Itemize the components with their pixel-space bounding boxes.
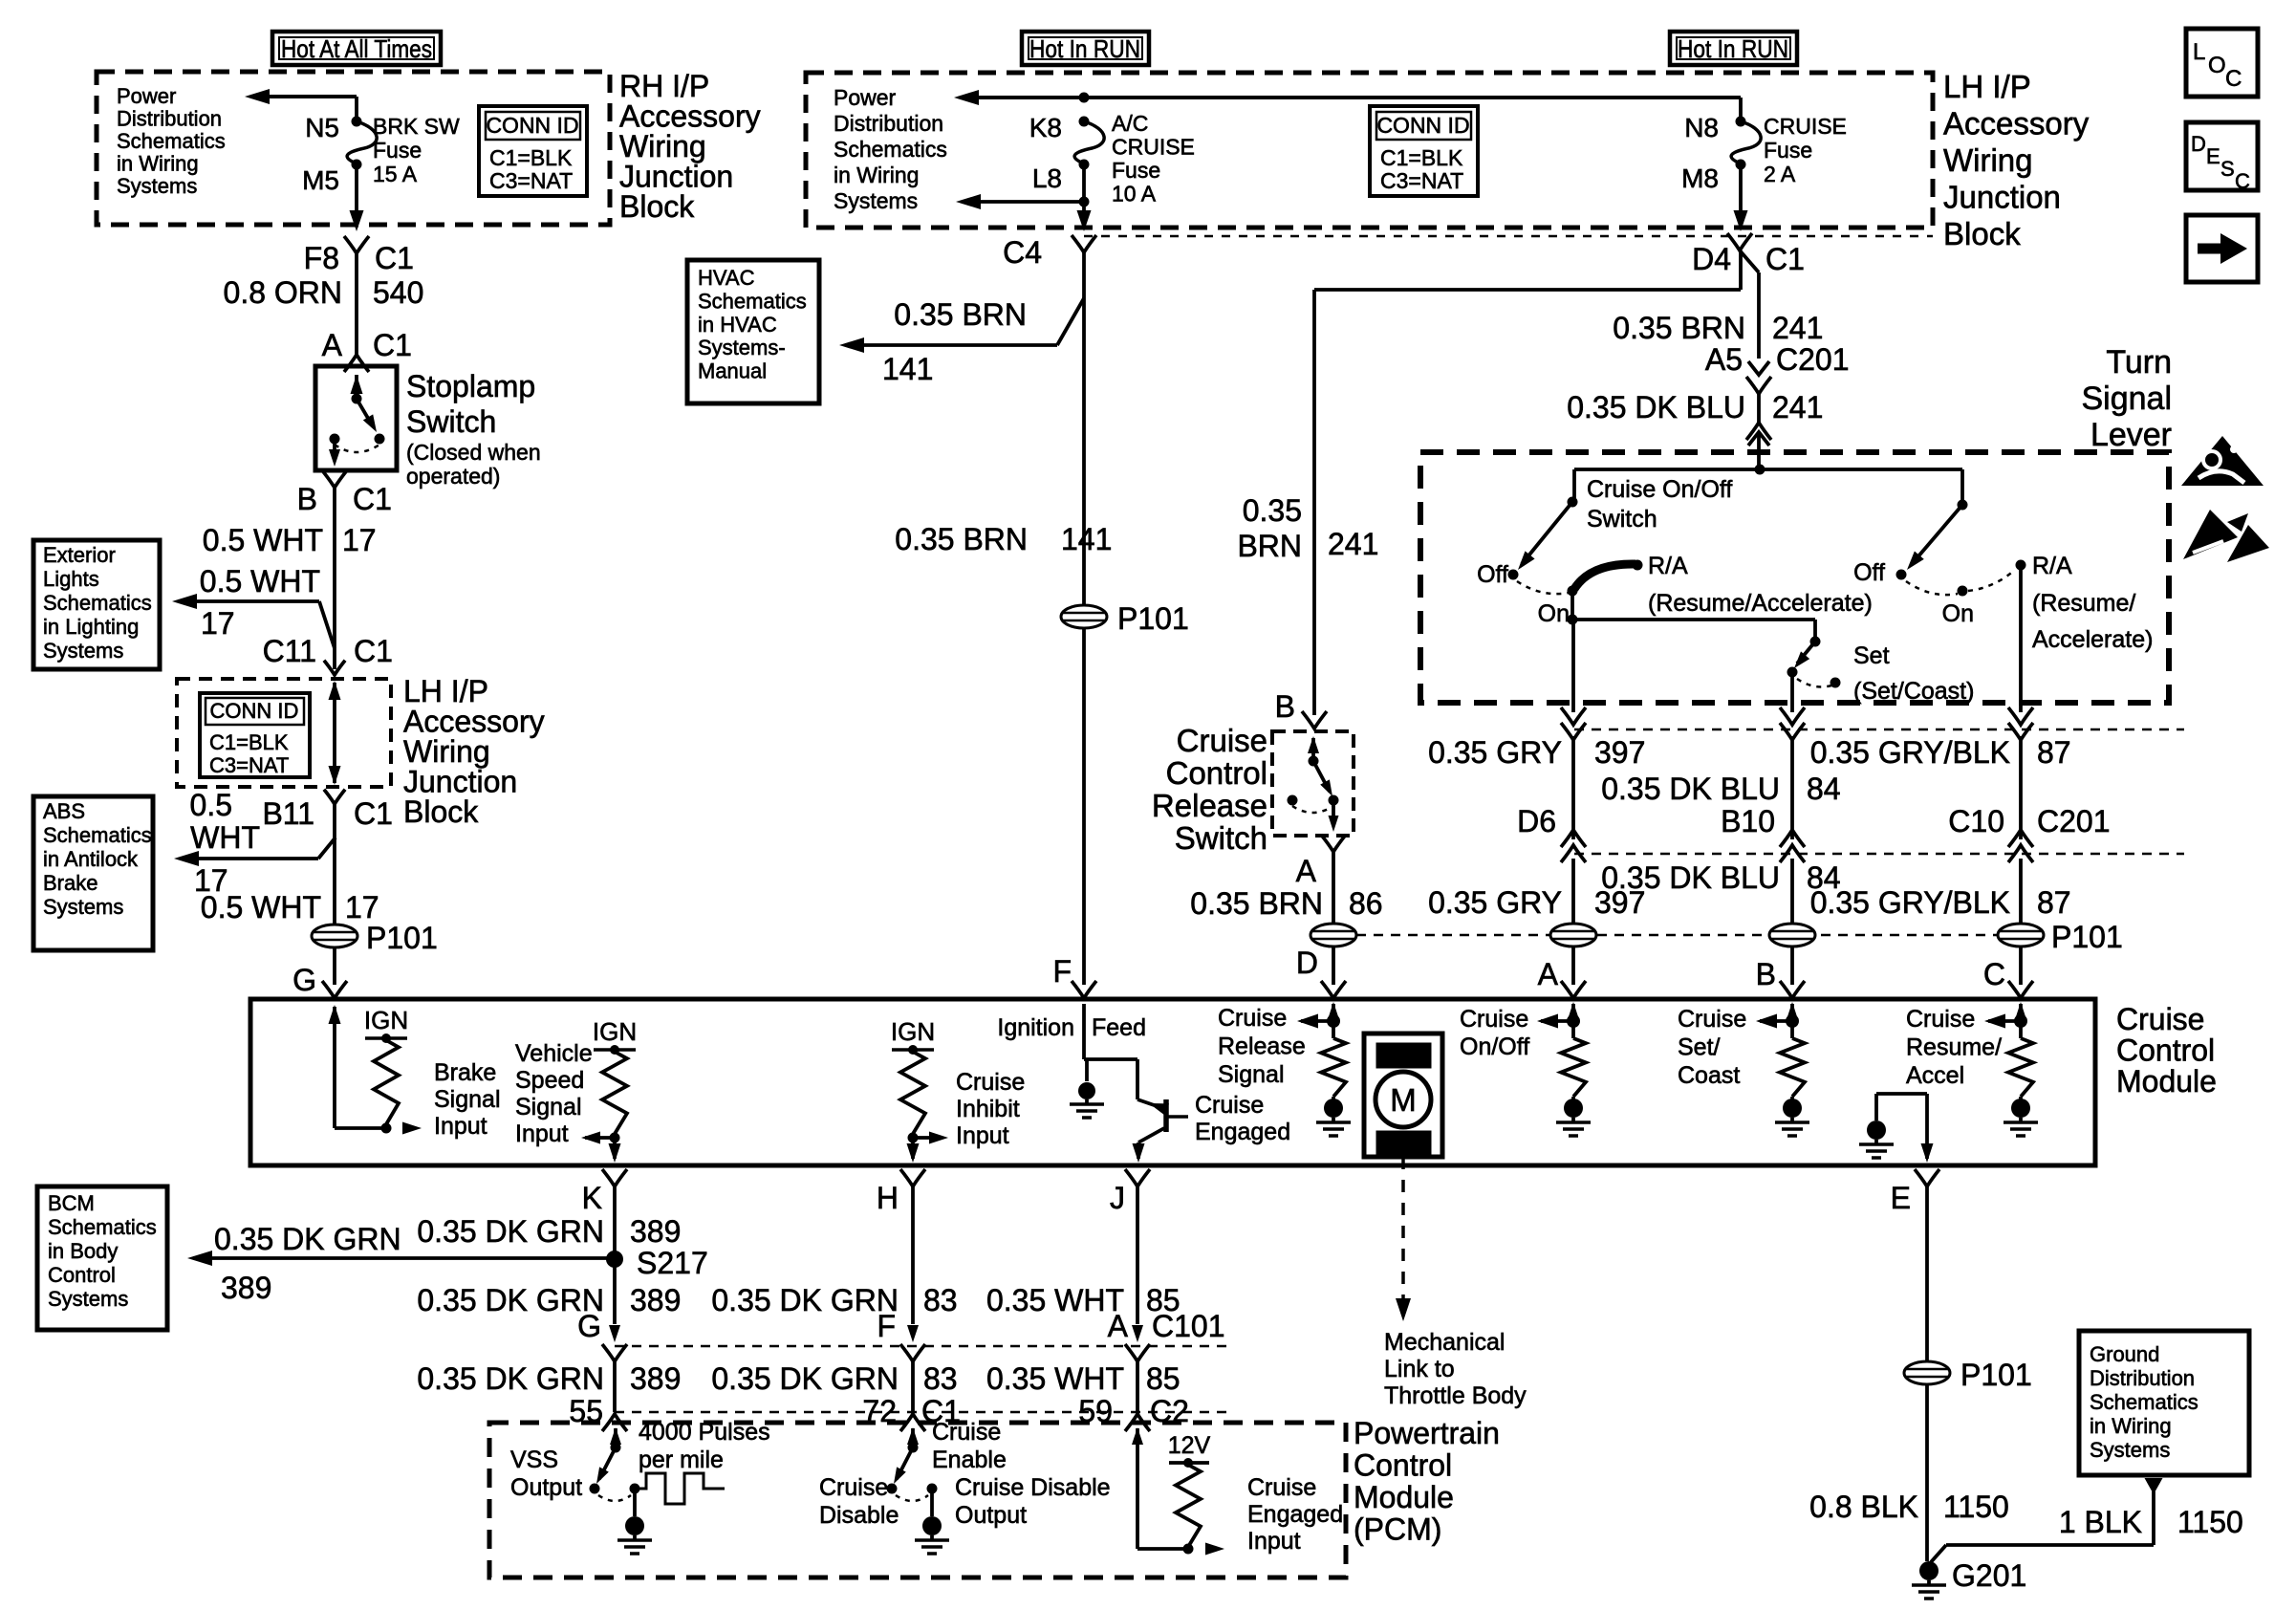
svg-text:0.35 WHT: 0.35 WHT: [986, 1361, 1124, 1396]
connector B C1: [297, 470, 392, 516]
svg-text:P101: P101: [1117, 601, 1189, 636]
svg-text:0.35 DK BLU: 0.35 DK BLU: [1601, 772, 1780, 806]
svg-text:BCM: BCM: [48, 1191, 95, 1215]
label Cruise Resume/ Accel: [1906, 1006, 2002, 1089]
svg-text:E: E: [1891, 1181, 1911, 1215]
svg-text:Schematics: Schematics: [834, 137, 947, 162]
svg-text:Cruise: Cruise: [1460, 1006, 1528, 1033]
svg-text:241: 241: [1772, 390, 1823, 424]
svg-text:Fuse: Fuse: [1764, 138, 1812, 163]
connector P101 (B wire): [1769, 924, 1815, 946]
svg-text:389: 389: [630, 1283, 681, 1317]
svg-text:A: A: [1538, 957, 1559, 991]
label Cruise Inhibit Input: [956, 1069, 1025, 1149]
svg-text:87: 87: [2037, 885, 2071, 920]
svg-text:Coast: Coast: [1678, 1062, 1740, 1089]
svg-text:Enable: Enable: [932, 1447, 1007, 1473]
LH I/P junction block dashed box (top): [806, 73, 1933, 228]
svg-text:O: O: [2208, 53, 2226, 78]
label Powertrain Control Module (PCM): [1354, 1416, 1500, 1547]
svg-text:On: On: [1538, 600, 1570, 627]
wire C to module: [1983, 946, 2033, 998]
svg-text:K8: K8: [1029, 113, 1062, 142]
connector E: [1891, 1169, 1939, 1361]
svg-text:in Body: in Body: [48, 1239, 118, 1263]
node lever feed junction: [1574, 465, 1962, 475]
svg-text:in Wiring: in Wiring: [834, 163, 919, 187]
wire 0.35 DK GRN 389 (K): [417, 1214, 681, 1249]
svg-text:0.35 DK GRN: 0.35 DK GRN: [417, 1283, 604, 1317]
connector row PCM (dashed): [602, 1412, 1228, 1431]
wire 0.35 GRY/BLK 87 (upper): [1810, 735, 2071, 839]
svg-text:C: C: [2225, 66, 2242, 92]
module vehicle speed signal circuit: [581, 1017, 637, 1163]
svg-text:Cruise: Cruise: [2116, 1002, 2204, 1036]
wire B to module: [1756, 946, 1805, 998]
svg-text:C101: C101: [1152, 1309, 1225, 1343]
svg-text:0.35 BRN: 0.35 BRN: [1190, 886, 1323, 921]
svg-text:0.35 GRY: 0.35 GRY: [1428, 885, 1562, 920]
wire 0.35 WHT 85 59 C2 (to PCM): [986, 1361, 1189, 1428]
svg-text:15 A: 15 A: [373, 162, 418, 186]
svg-text:141: 141: [1061, 522, 1112, 556]
wire branch 0.5 WHT 17 to ABS: [174, 804, 336, 924]
svg-text:0.35 DK BLU: 0.35 DK BLU: [1601, 860, 1780, 895]
svg-text:84: 84: [1807, 772, 1841, 806]
label Cruise On/Off Switch: [1587, 476, 1732, 533]
svg-text:Systems-: Systems-: [698, 336, 786, 359]
label box Hot In RUN (right): [1670, 32, 1797, 65]
svg-text:Fuse: Fuse: [1112, 158, 1160, 183]
svg-text:Accessory: Accessory: [1943, 106, 2090, 141]
wire branch 0.5 WHT 17 to exterior lights: [172, 564, 335, 648]
svg-text:Input: Input: [956, 1122, 1009, 1149]
ground G201: [1912, 1558, 2026, 1599]
cruise enable switch: [887, 1427, 938, 1501]
svg-text:E: E: [2206, 144, 2220, 168]
cruise on/off switch (right): [1896, 469, 2026, 597]
svg-text:B: B: [1275, 689, 1295, 724]
wire 0.35 DK GRN 389 55 (to PCM): [417, 1361, 681, 1428]
svg-text:C: C: [2235, 169, 2250, 193]
LH I/P junction block dashed box (left): [177, 679, 391, 787]
connector A (release switch): [1296, 835, 1346, 888]
svg-text:C1: C1: [354, 634, 393, 668]
svg-text:CRUISE: CRUISE: [1764, 114, 1847, 139]
label 4000 Pulses per mile: [639, 1419, 770, 1473]
svg-text:0.35 DK GRN: 0.35 DK GRN: [417, 1214, 604, 1249]
svg-text:Schematics: Schematics: [43, 823, 152, 847]
svg-text:HVAC: HVAC: [698, 266, 755, 290]
svg-text:Switch: Switch: [1587, 506, 1657, 533]
svg-text:S: S: [2220, 157, 2235, 181]
PCM cruise engaged input circuit: [1132, 1427, 1224, 1556]
wire fuse to F8: [350, 164, 364, 231]
svg-text:Cruise: Cruise: [819, 1474, 888, 1501]
svg-text:241: 241: [1772, 311, 1823, 345]
wire lever outputs: [1573, 565, 2021, 712]
transistor cruise engaged: [1133, 1059, 1189, 1163]
svg-text:C1: C1: [375, 241, 414, 275]
wire 0.35 DK BLU 241: [1567, 390, 1823, 469]
module ignition feed wire: [1084, 1004, 1137, 1059]
note Power Distribution Schematics (left): [117, 84, 226, 198]
svg-text:Cruise: Cruise: [1195, 1092, 1264, 1119]
svg-text:0.35 BRN: 0.35 BRN: [1613, 311, 1745, 345]
label R/A (Resume/ Accelerate): [2032, 553, 2153, 653]
module cruise resume/accel circuit: [1984, 1002, 2038, 1136]
svg-text:Schematics: Schematics: [43, 591, 152, 615]
svg-text:Hot At All Times: Hot At All Times: [281, 34, 432, 63]
label Cruise Engaged: [1195, 1092, 1290, 1145]
svg-text:On/Off: On/Off: [1460, 1033, 1529, 1060]
svg-text:Release: Release: [1218, 1033, 1306, 1060]
fuse A/C CRUISE 10 A: [1029, 111, 1195, 207]
svg-text:Engaged: Engaged: [1247, 1501, 1343, 1528]
label Mechanical Link to Throttle Body: [1384, 1329, 1527, 1409]
label Cruise Disable Output: [955, 1474, 1111, 1529]
svg-text:Junction: Junction: [1943, 180, 2061, 215]
connector K: [582, 1169, 627, 1258]
svg-text:Link to: Link to: [1384, 1356, 1455, 1382]
svg-text:4000 Pulses: 4000 Pulses: [639, 1419, 770, 1446]
svg-text:Input: Input: [1247, 1528, 1301, 1555]
svg-text:Systems: Systems: [48, 1287, 128, 1311]
label box Hot At All Times: [272, 32, 441, 65]
svg-text:Accel: Accel: [1906, 1062, 1964, 1089]
label On (left switch): [1538, 600, 1570, 627]
wire fuse output + branch arrow (center): [956, 164, 1092, 231]
svg-text:Output: Output: [510, 1474, 582, 1501]
svg-text:L8: L8: [1032, 163, 1062, 193]
svg-text:0.35 DK GRN: 0.35 DK GRN: [214, 1222, 401, 1256]
svg-text:Systems: Systems: [834, 188, 918, 213]
svg-text:operated): operated): [406, 464, 500, 489]
svg-text:141: 141: [882, 352, 933, 386]
svg-text:Engaged: Engaged: [1195, 1119, 1290, 1145]
svg-text:A5: A5: [1705, 342, 1743, 377]
svg-text:B: B: [1756, 957, 1776, 991]
svg-text:1 BLK: 1 BLK: [2059, 1505, 2142, 1539]
label R/A (Resume/Accelerate): [1648, 553, 1873, 617]
svg-text:0.5: 0.5: [190, 788, 232, 822]
svg-text:389: 389: [630, 1214, 681, 1249]
svg-text:B11: B11: [262, 796, 314, 831]
label Set (Set/Coast): [1853, 642, 1974, 705]
svg-text:0.35 BRN: 0.35 BRN: [895, 522, 1028, 556]
svg-text:Control: Control: [1166, 755, 1267, 791]
svg-text:C1=BLK: C1=BLK: [489, 145, 573, 170]
connector P101 (left): [312, 921, 438, 955]
svg-text:2 A: 2 A: [1764, 162, 1796, 186]
icon LOC box: [2186, 29, 2258, 97]
conn id box (RH): [479, 106, 587, 196]
powertrain control module dashed box: [489, 1423, 1346, 1577]
svg-text:H: H: [877, 1181, 899, 1215]
svg-text:540: 540: [373, 275, 423, 310]
svg-text:CONN ID: CONN ID: [210, 699, 299, 723]
svg-text:CONN ID: CONN ID: [486, 113, 578, 138]
conn id box (LH left): [200, 693, 310, 777]
connector P101 (D wire): [1310, 924, 1356, 946]
svg-text:C1: C1: [373, 328, 412, 362]
connector A5 C201: [1705, 342, 1850, 394]
svg-text:Control: Control: [1354, 1448, 1452, 1483]
label Turn Signal Lever: [2081, 344, 2172, 453]
svg-text:in Lighting: in Lighting: [43, 615, 139, 639]
svg-text:Module: Module: [1354, 1480, 1454, 1514]
svg-text:Systems: Systems: [2090, 1438, 2170, 1462]
cruise on/off switch (left): [1508, 469, 1578, 597]
connector B11 C1: [190, 788, 393, 855]
svg-text:D4: D4: [1692, 242, 1731, 276]
signal 4000 pulses per mile: [635, 1473, 725, 1504]
svg-text:P101: P101: [2051, 920, 2123, 954]
exterior lights schematics box: [33, 540, 160, 669]
contact R/A closed arc (bold): [1574, 560, 1643, 590]
svg-text:M: M: [1390, 1082, 1417, 1118]
svg-text:Systems: Systems: [43, 639, 123, 663]
svg-text:in Wiring: in Wiring: [2090, 1414, 2172, 1438]
svg-text:Cruise: Cruise: [1678, 1006, 1746, 1033]
svg-text:in Antilock: in Antilock: [43, 847, 139, 871]
svg-text:Cruise: Cruise: [932, 1419, 1001, 1446]
wire through junction block (double arrow): [329, 681, 341, 785]
svg-text:Output: Output: [955, 1502, 1027, 1529]
label Cruise Disable: [819, 1474, 899, 1529]
svg-text:17: 17: [201, 606, 235, 641]
svg-text:in HVAC: in HVAC: [698, 313, 777, 337]
svg-text:0.5 WHT: 0.5 WHT: [200, 564, 320, 598]
svg-text:G: G: [577, 1309, 601, 1343]
svg-text:Input: Input: [515, 1120, 569, 1147]
svg-text:0.5 WHT: 0.5 WHT: [203, 523, 323, 557]
svg-text:C201: C201: [1776, 342, 1850, 377]
wire 0.35 GRY 397 (lower): [1428, 859, 1645, 924]
svg-text:397: 397: [1594, 735, 1645, 770]
label 0.35 DK GRN 83 (H): [711, 1283, 957, 1317]
svg-text:Signal: Signal: [2081, 381, 2172, 417]
svg-text:Cruise: Cruise: [1218, 1005, 1287, 1032]
svg-text:0.35 BRN: 0.35 BRN: [894, 297, 1027, 332]
module brake signal input circuit: [329, 1005, 422, 1135]
connector P101 (E wire): [1904, 1358, 2032, 1392]
wire fuse to D4: [1734, 164, 1748, 231]
svg-text:WHT: WHT: [190, 820, 260, 855]
label VSS Output: [510, 1447, 582, 1501]
svg-text:Power: Power: [834, 85, 897, 110]
svg-text:10 A: 10 A: [1112, 182, 1157, 207]
svg-text:C3=NAT: C3=NAT: [209, 753, 289, 777]
VSS output switch: [590, 1427, 640, 1501]
svg-text:12V: 12V: [1168, 1432, 1211, 1459]
svg-text:87: 87: [2037, 735, 2071, 770]
module cruise inhibit input circuit: [891, 1017, 948, 1163]
svg-text:Block: Block: [1943, 216, 2021, 251]
svg-text:A: A: [1296, 854, 1317, 888]
svg-text:0.35 DK GRN: 0.35 DK GRN: [711, 1361, 899, 1396]
svg-text:BRN: BRN: [1237, 529, 1302, 563]
svg-text:Cruise On/Off: Cruise On/Off: [1587, 476, 1732, 503]
svg-text:Schematics: Schematics: [117, 129, 226, 153]
svg-text:C201: C201: [2037, 804, 2111, 838]
ground distribution schematics box: [2079, 1331, 2249, 1475]
svg-text:Switch: Switch: [406, 404, 496, 439]
svg-text:Mechanical: Mechanical: [1384, 1329, 1505, 1356]
svg-text:Lights: Lights: [43, 567, 99, 591]
cruise set/coast switch: [1787, 637, 1841, 688]
connector row C201 (dashed): [1561, 707, 2184, 740]
svg-text:Ignition: Ignition: [997, 1014, 1074, 1041]
svg-text:G: G: [292, 963, 316, 997]
svg-text:C4: C4: [1003, 235, 1042, 270]
connector D4 C1: [1692, 233, 1805, 276]
svg-text:1150: 1150: [1943, 1490, 2009, 1524]
svg-text:L: L: [2193, 39, 2205, 65]
hazard triangle icon (caution): [2181, 436, 2264, 486]
label LH I/P Accessory Wiring Junction Block (top): [1943, 69, 2090, 251]
svg-text:C1: C1: [353, 482, 392, 516]
icon DESC box: [2186, 122, 2258, 193]
ground (module output E): [1859, 1094, 1894, 1158]
label Brake Signal Input: [434, 1059, 501, 1140]
svg-text:Brake: Brake: [43, 871, 97, 895]
connector row C101 (dashed): [577, 1309, 1228, 1361]
svg-text:85: 85: [1146, 1361, 1180, 1396]
wire D4 branch to release switch (horizontal): [1314, 250, 1741, 290]
svg-text:M8: M8: [1681, 163, 1719, 193]
svg-text:LH I/P: LH I/P: [1943, 69, 2031, 104]
label 0.35 WHT 85 (J): [986, 1283, 1180, 1317]
svg-text:0.35 DK GRN: 0.35 DK GRN: [417, 1361, 604, 1396]
svg-text:Signal: Signal: [434, 1086, 501, 1113]
svg-text:F8: F8: [304, 241, 339, 275]
connector C11 C1: [263, 634, 393, 675]
svg-text:C1=BLK: C1=BLK: [209, 730, 289, 754]
label Cruise Enable: [932, 1419, 1007, 1473]
wire P101 to module pin F: [1052, 628, 1096, 998]
svg-text:0.5 WHT: 0.5 WHT: [201, 890, 321, 925]
wire 0.35 DK GRN 389 to BCM: [187, 1222, 615, 1305]
svg-text:0.35 DK BLU: 0.35 DK BLU: [1567, 390, 1745, 424]
wire 0.35 DK BLU 84 (upper): [1601, 736, 1840, 839]
wire 0.35 DK GRN 389 (below S217): [417, 1259, 681, 1324]
svg-text:F: F: [1052, 954, 1072, 989]
connector row D6 B10 C10 C201: [1517, 804, 2184, 862]
svg-text:Cruise: Cruise: [1906, 1006, 1975, 1033]
svg-text:Schematics: Schematics: [2090, 1390, 2199, 1414]
ABS schematics box: [33, 796, 153, 950]
svg-text:(PCM): (PCM): [1354, 1512, 1441, 1547]
svg-text:C3=NAT: C3=NAT: [1380, 168, 1463, 193]
svg-text:D6: D6: [1517, 804, 1556, 838]
label Cruise Control Release Switch: [1152, 723, 1267, 856]
svg-text:Control: Control: [48, 1263, 116, 1287]
svg-text:Systems: Systems: [117, 174, 197, 198]
wire 0.35 BRN 241 (release feed): [1237, 290, 1378, 715]
svg-text:F: F: [877, 1309, 896, 1343]
wire 1 BLK 1150: [1931, 1478, 2243, 1562]
svg-text:S217: S217: [637, 1246, 708, 1280]
svg-text:D: D: [2191, 132, 2206, 156]
svg-text:Schematics: Schematics: [698, 289, 807, 313]
svg-text:G201: G201: [1952, 1558, 2026, 1593]
conn id box (top center): [1370, 106, 1478, 196]
svg-text:Ground: Ground: [2090, 1342, 2159, 1366]
svg-text:Feed: Feed: [1092, 1014, 1146, 1041]
svg-text:0.8 ORN: 0.8 ORN: [224, 275, 342, 310]
svg-text:Exterior: Exterior: [43, 543, 116, 567]
svg-text:83: 83: [923, 1361, 958, 1396]
svg-text:(Set/Coast): (Set/Coast): [1853, 678, 1974, 705]
svg-text:Block: Block: [403, 794, 479, 829]
svg-text:Brake: Brake: [434, 1059, 496, 1086]
svg-text:C10: C10: [1948, 804, 2004, 838]
label Vehicle Speed Signal Input: [515, 1040, 593, 1147]
hazard triangle icon (ESD): [2183, 510, 2269, 562]
svg-text:Module: Module: [2116, 1064, 2217, 1099]
label LH I/P Accessory Wiring Junction Block (left): [403, 674, 545, 829]
svg-text:Off: Off: [1477, 561, 1508, 588]
svg-text:IGN: IGN: [891, 1017, 935, 1046]
svg-text:VSS: VSS: [510, 1447, 558, 1473]
connector P101 row (dashed): [1356, 934, 1999, 937]
svg-text:1150: 1150: [2177, 1505, 2243, 1539]
ground (ignition feed): [1070, 1059, 1104, 1118]
turn signal lever dashed box: [1420, 452, 2169, 703]
svg-text:in Wiring: in Wiring: [117, 152, 199, 176]
svg-text:A: A: [322, 328, 343, 362]
svg-text:ABS: ABS: [43, 799, 85, 823]
wire 0.8 BLK 1150: [1809, 1384, 2009, 1561]
label Stoplamp Switch: [406, 369, 541, 489]
svg-text:J: J: [1110, 1181, 1125, 1215]
cruise control release switch: [1272, 731, 1354, 836]
connector line C1 (fine dashed): [1084, 235, 1933, 238]
svg-text:Powertrain: Powertrain: [1354, 1416, 1500, 1450]
label On (right switch): [1942, 600, 1974, 627]
svg-text:Cruise: Cruise: [1177, 723, 1267, 758]
svg-text:Stoplamp: Stoplamp: [406, 369, 535, 403]
wire 0.35 GRY/BLK 87 (lower): [1810, 859, 2071, 924]
svg-text:0.35 GRY/BLK: 0.35 GRY/BLK: [1810, 885, 2010, 920]
wire 0.35 BRN 241 (D4 down): [1613, 250, 1823, 359]
svg-text:0.35 GRY: 0.35 GRY: [1428, 735, 1562, 770]
wire 0.35 BRN 86: [1190, 852, 1382, 924]
svg-text:C1=BLK: C1=BLK: [1380, 145, 1463, 170]
svg-text:IGN: IGN: [364, 1006, 408, 1034]
wire 0.35 DK BLU 84 (lower): [1601, 859, 1840, 924]
svg-text:B10: B10: [1721, 804, 1775, 838]
connector J: [1110, 1169, 1150, 1324]
svg-text:Block: Block: [619, 189, 695, 224]
connector F8 C1: [304, 236, 414, 275]
svg-text:P101: P101: [1960, 1358, 2032, 1392]
svg-text:M5: M5: [302, 165, 339, 195]
svg-text:C1: C1: [354, 796, 393, 831]
connector P101 (A wire): [1550, 924, 1596, 946]
svg-text:(Resume/: (Resume/: [2032, 590, 2135, 617]
svg-text:D: D: [1296, 946, 1318, 980]
svg-text:86: 86: [1349, 886, 1383, 921]
svg-text:Fuse: Fuse: [373, 138, 422, 163]
svg-text:A: A: [1108, 1309, 1129, 1343]
wire bus to power distribution (left): [245, 89, 357, 121]
splice S217: [606, 1246, 708, 1280]
svg-text:Manual: Manual: [698, 359, 767, 383]
svg-text:Wiring: Wiring: [1943, 142, 2033, 178]
wire 0.35 DK GRN 83 72 C1 (to PCM): [711, 1361, 961, 1428]
